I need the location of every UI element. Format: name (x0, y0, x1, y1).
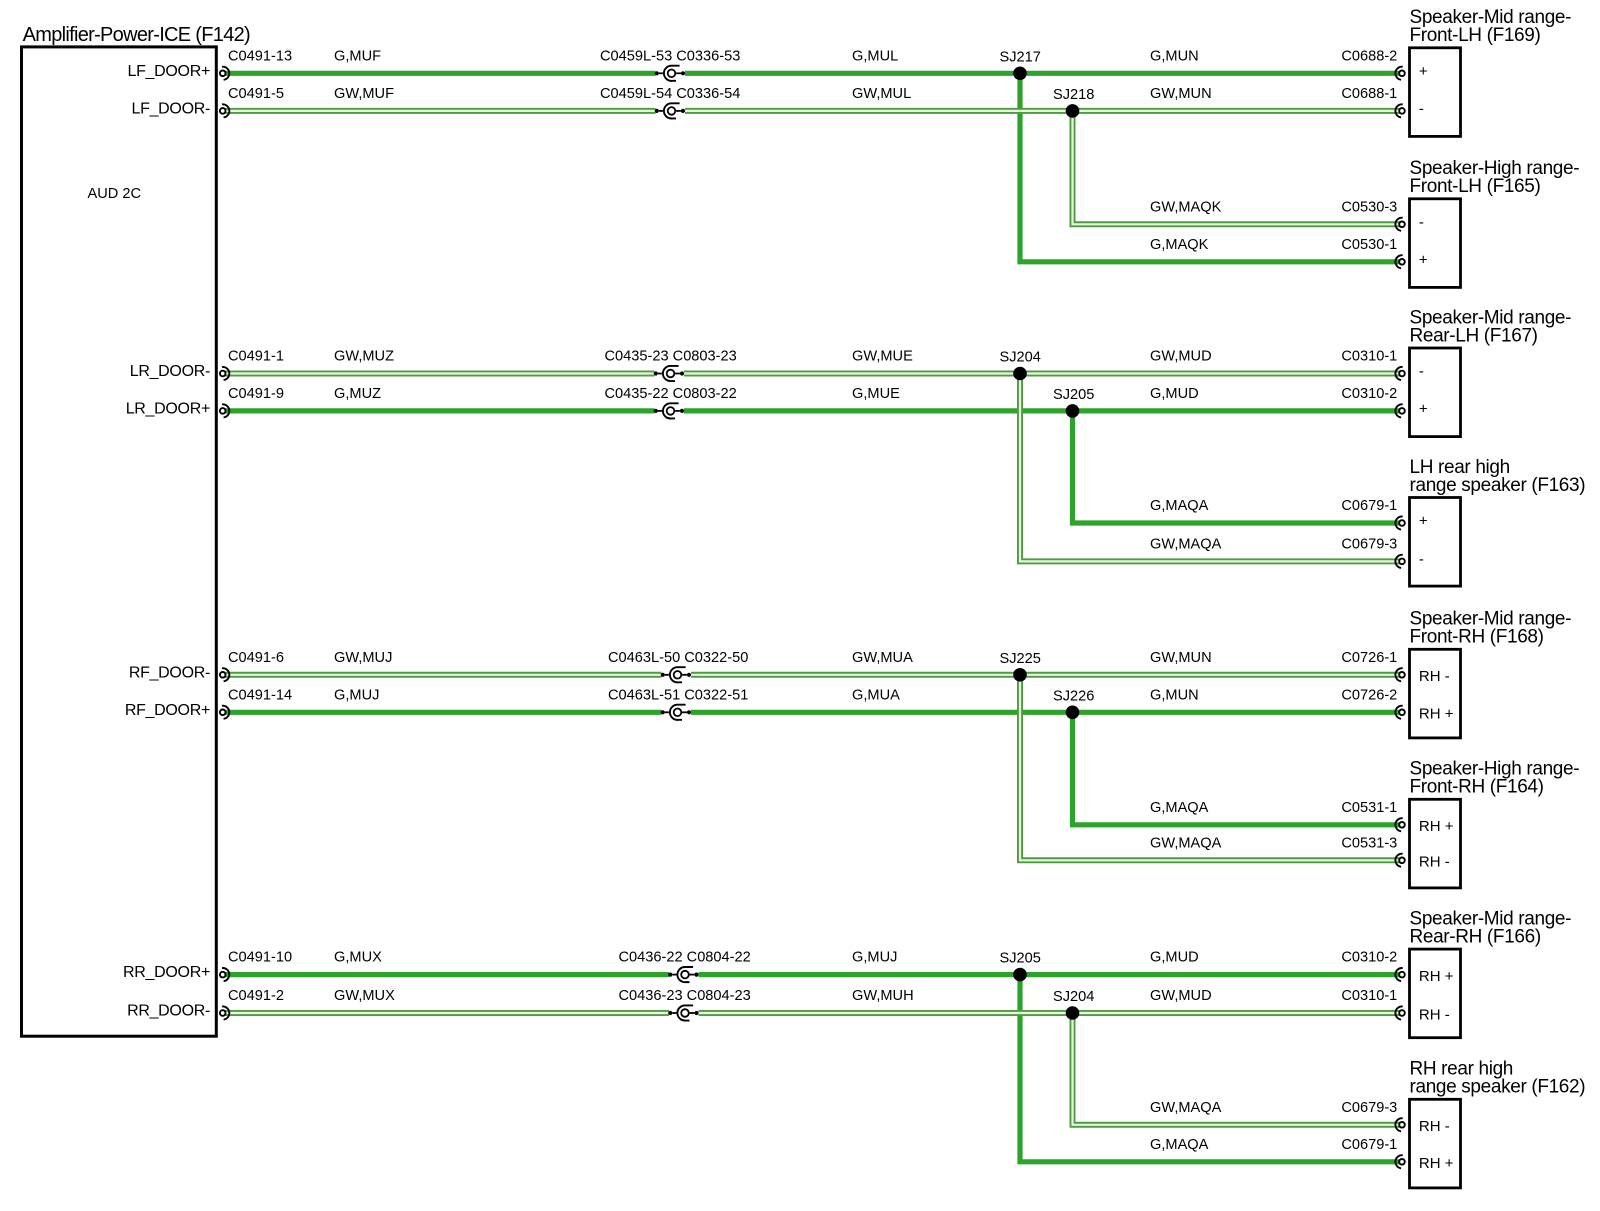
speaker pin C0310-2 (1395, 404, 1404, 417)
svg-text:GW,MUJ: GW,MUJ (334, 650, 392, 666)
svg-text:RH -: RH - (1419, 854, 1450, 871)
svg-text:LF_DOOR-: LF_DOOR- (132, 100, 211, 117)
svg-text:-: - (1419, 363, 1424, 380)
svg-text:C0530-1: C0530-1 (1341, 237, 1397, 253)
svg-text:RR_DOOR+: RR_DOOR+ (123, 964, 210, 981)
amplifier Amplifier-Power-ICE (F142) box (22, 47, 217, 1036)
svg-text:range speaker (F162): range speaker (F162) (1410, 1077, 1586, 1098)
svg-text:C0679-1: C0679-1 (1341, 498, 1397, 514)
svg-text:G,MAQA: G,MAQA (1150, 800, 1209, 816)
svg-text:GW,MUE: GW,MUE (852, 349, 913, 365)
svg-text:C0491-1: C0491-1 (228, 349, 284, 365)
svg-text:G,MUZ: G,MUZ (334, 386, 381, 402)
svg-text:C0679-3: C0679-3 (1341, 1100, 1397, 1116)
junction SJ217 (1013, 67, 1027, 81)
svg-text:GW,MUD: GW,MUD (1150, 988, 1212, 1004)
svg-text:SJ225: SJ225 (1000, 651, 1041, 667)
svg-text:C0688-2: C0688-2 (1341, 48, 1397, 64)
amplifier pin RF_DOOR+ (C0491-14) (220, 706, 229, 719)
wire G,MUA / G,MUN thick segment 2 (691, 710, 1402, 715)
svg-text:C0463L-51 C0322-51: C0463L-51 C0322-51 (608, 687, 748, 703)
svg-text:GW,MAQK: GW,MAQK (1150, 199, 1222, 215)
amplifier pin LF_DOOR+ (C0491-13) (220, 67, 229, 80)
inline connector C0436-22 C0804-22 (668, 967, 698, 982)
junction SJ205 (1066, 404, 1080, 418)
wire GW,MUL / GW,MUN thin segment 2 (685, 108, 1402, 114)
wire GW,MAQA branch from SJ225 (1020, 675, 1402, 861)
speaker pin C0531-3 (1395, 854, 1404, 867)
amplifier pin LR_DOOR+ (C0491-9) (220, 404, 229, 417)
wire G,MUJ / G,MUD thick segment 2 (699, 972, 1403, 977)
svg-text:C0491-10: C0491-10 (228, 950, 292, 966)
svg-text:G,MUN: G,MUN (1150, 48, 1199, 64)
svg-text:+: + (1419, 251, 1428, 268)
inline connector C0463L-51 C0322-51 (661, 705, 691, 720)
svg-text:G,MAQA: G,MAQA (1150, 1137, 1209, 1153)
svg-text:C0726-2: C0726-2 (1341, 687, 1397, 703)
inline connector C0436-23 C0804-23 (668, 1005, 698, 1020)
svg-text:-: - (1419, 100, 1424, 117)
svg-text:RH -: RH - (1419, 1006, 1450, 1023)
svg-text:LR_DOOR+: LR_DOOR+ (126, 400, 210, 417)
svg-text:C0679-3: C0679-3 (1341, 536, 1397, 552)
svg-text:SJ218: SJ218 (1053, 87, 1094, 103)
wire G,MUL / G,MUN thick segment 2 (685, 71, 1402, 76)
wire GW,MUZ (C0491-1) thin segment 1 (223, 371, 655, 377)
svg-text:C0531-3: C0531-3 (1341, 835, 1397, 851)
svg-text:G,MAQK: G,MAQK (1150, 237, 1209, 253)
svg-text:G,MUN: G,MUN (1150, 687, 1199, 703)
svg-text:C0310-1: C0310-1 (1341, 988, 1397, 1004)
svg-text:Front-RH (F164): Front-RH (F164) (1410, 777, 1544, 798)
svg-text:-: - (1419, 214, 1424, 231)
svg-text:Amplifier-Power-ICE (F142): Amplifier-Power-ICE (F142) (23, 24, 250, 46)
speaker pin C0530-1 (1395, 255, 1404, 268)
svg-text:GW,MUH: GW,MUH (852, 988, 914, 1004)
svg-text:C0679-1: C0679-1 (1341, 1137, 1397, 1153)
inline connector C0463L-50 C0322-50 (661, 667, 691, 682)
wire GW,MAQA branch from SJ204 (1020, 374, 1402, 562)
svg-text:RH -: RH - (1419, 1118, 1450, 1135)
junction SJ225 (1013, 668, 1027, 682)
wire GW,MUX (C0491-2) thin segment 1 (223, 1010, 669, 1016)
speaker pin C0679-1 (1395, 1155, 1404, 1168)
speaker F165 box (1410, 199, 1461, 288)
svg-text:RH +: RH + (1419, 968, 1454, 985)
svg-text:SJ205: SJ205 (1000, 951, 1041, 967)
wire G,MUE / G,MUD thick segment 2 (684, 408, 1402, 413)
svg-text:G,MUL: G,MUL (852, 48, 898, 64)
speaker pin C0310-1 (1395, 1006, 1404, 1019)
junction SJ218 (1066, 104, 1080, 118)
wire GW,MAQK branch from SJ218 (1073, 111, 1403, 224)
svg-text:GW,MUA: GW,MUA (852, 650, 913, 666)
wire GW,MUF (C0491-5) thin segment 1 (223, 108, 656, 114)
wire G,MUZ (C0491-9) thick segment 1 (223, 408, 655, 413)
svg-text:C0491-13: C0491-13 (228, 48, 292, 64)
svg-text:-: - (1419, 551, 1424, 568)
speaker F168 box (1410, 649, 1461, 738)
svg-text:G,MUX: G,MUX (334, 950, 382, 966)
junction SJ205 (1013, 968, 1027, 982)
svg-text:G,MUD: G,MUD (1150, 386, 1199, 402)
svg-text:RF_DOOR+: RF_DOOR+ (125, 702, 210, 719)
svg-text:RF_DOOR-: RF_DOOR- (129, 664, 210, 681)
svg-text:G,MUA: G,MUA (852, 687, 900, 703)
speaker pin C0310-1 (1395, 367, 1404, 380)
svg-text:RH +: RH + (1419, 1155, 1454, 1172)
wire G,MAQA branch from SJ226 (1073, 712, 1403, 825)
svg-text:SJ205: SJ205 (1053, 387, 1094, 403)
inline connector C0459L-54 C0336-54 (655, 103, 685, 118)
svg-text:range speaker (F163): range speaker (F163) (1410, 475, 1586, 496)
speaker pin C0726-1 (1395, 668, 1404, 681)
svg-text:C0491-6: C0491-6 (228, 650, 284, 666)
svg-text:C0491-5: C0491-5 (228, 86, 284, 102)
speaker pin C0531-1 (1395, 818, 1404, 831)
svg-text:G,MUE: G,MUE (852, 386, 900, 402)
wire GW,MUH / GW,MUD thin segment 2 (699, 1010, 1403, 1016)
svg-text:GW,MAQA: GW,MAQA (1150, 536, 1222, 552)
svg-text:LF_DOOR+: LF_DOOR+ (127, 63, 210, 80)
junction SJ226 (1066, 706, 1080, 720)
svg-text:C0491-2: C0491-2 (228, 988, 284, 1004)
speaker pin C0688-2 (1395, 67, 1404, 80)
amplifier pin LR_DOOR- (C0491-1) (220, 367, 229, 380)
svg-text:G,MUF: G,MUF (334, 48, 381, 64)
amplifier pin LF_DOOR- (C0491-5) (220, 104, 229, 117)
speaker F169 box (1410, 48, 1461, 137)
svg-text:Rear-LH (F167): Rear-LH (F167) (1410, 325, 1538, 346)
speaker pin C0679-3 (1395, 1118, 1404, 1131)
svg-text:GW,MUZ: GW,MUZ (334, 349, 394, 365)
svg-text:C0436-23 C0804-23: C0436-23 C0804-23 (619, 988, 751, 1004)
svg-text:RH +: RH + (1419, 706, 1454, 723)
svg-text:C0491-14: C0491-14 (228, 687, 292, 703)
amplifier pin RF_DOOR- (C0491-6) (220, 668, 229, 681)
svg-text:G,MUD: G,MUD (1150, 950, 1199, 966)
svg-text:Front-LH (F169): Front-LH (F169) (1410, 25, 1541, 46)
speaker F164 box (1410, 799, 1461, 888)
svg-text:+: + (1419, 63, 1428, 80)
inline connector C0459L-53 C0336-53 (655, 66, 685, 81)
inline connector C0435-22 C0803-22 (654, 403, 684, 418)
svg-text:Front-LH (F165): Front-LH (F165) (1410, 176, 1541, 197)
svg-text:GW,MAQA: GW,MAQA (1150, 835, 1222, 851)
svg-text:C0436-22 C0804-22: C0436-22 C0804-22 (619, 950, 751, 966)
wire G,MAQA branch from SJ205 (1073, 411, 1403, 523)
wire GW,MAQA branch from SJ204 (1073, 1013, 1403, 1125)
speaker pin C0310-2 (1395, 968, 1404, 981)
amplifier pin RR_DOOR- (C0491-2) (220, 1006, 229, 1019)
svg-text:C0435-23 C0803-23: C0435-23 C0803-23 (605, 349, 737, 365)
junction SJ204 (1013, 367, 1027, 381)
svg-text:G,MUJ: G,MUJ (852, 950, 897, 966)
svg-text:C0463L-50 C0322-50: C0463L-50 C0322-50 (608, 650, 748, 666)
wire GW,MUA / GW,MUN thin segment 2 (691, 672, 1402, 678)
svg-text:LR_DOOR-: LR_DOOR- (130, 363, 210, 380)
svg-text:GW,MUF: GW,MUF (334, 86, 394, 102)
svg-text:GW,MUN: GW,MUN (1150, 650, 1212, 666)
inline connector C0435-23 C0803-23 (654, 366, 684, 381)
svg-text:C0310-1: C0310-1 (1341, 349, 1397, 365)
svg-text:+: + (1419, 513, 1428, 530)
svg-text:Front-RH (F168): Front-RH (F168) (1410, 627, 1544, 648)
svg-text:RH -: RH - (1419, 668, 1450, 685)
wire GW,MUE / GW,MUD thin segment 2 (684, 371, 1402, 377)
speaker pin C0688-1 (1395, 104, 1404, 117)
svg-text:G,MAQA: G,MAQA (1150, 498, 1209, 514)
speaker F167 box (1410, 348, 1461, 437)
speaker pin C0530-3 (1395, 218, 1404, 231)
svg-text:C0491-9: C0491-9 (228, 386, 284, 402)
wire GW,MUJ (C0491-6) thin segment 1 (223, 672, 662, 678)
svg-text:C0459L-53 C0336-53: C0459L-53 C0336-53 (600, 48, 740, 64)
svg-text:SJ217: SJ217 (1000, 49, 1041, 65)
svg-text:C0435-22 C0803-22: C0435-22 C0803-22 (605, 386, 737, 402)
speaker pin C0679-3 (1395, 555, 1404, 568)
svg-text:AUD 2C: AUD 2C (88, 186, 142, 202)
svg-text:RR_DOOR-: RR_DOOR- (127, 1003, 210, 1020)
wire G,MUX (C0491-10) thick segment 1 (223, 972, 669, 977)
wire G,MAQA branch from SJ205 (1020, 975, 1402, 1162)
svg-text:GW,MUD: GW,MUD (1150, 349, 1212, 365)
amplifier pin RR_DOOR+ (C0491-10) (220, 968, 229, 981)
speaker F163 box (1410, 498, 1461, 587)
svg-text:C0688-1: C0688-1 (1341, 86, 1397, 102)
svg-text:+: + (1419, 400, 1428, 417)
svg-text:SJ204: SJ204 (1053, 989, 1094, 1005)
wire G,MAQK branch from SJ217 (1020, 73, 1402, 261)
svg-text:C0310-2: C0310-2 (1341, 950, 1397, 966)
speaker F166 box (1410, 949, 1461, 1038)
svg-text:RH +: RH + (1419, 818, 1454, 835)
speaker pin C0679-1 (1395, 516, 1404, 529)
speaker pin C0726-2 (1395, 706, 1404, 719)
svg-text:G,MUJ: G,MUJ (334, 687, 379, 703)
wire G,MUF (C0491-13) thick segment 1 (223, 71, 656, 76)
svg-text:SJ226: SJ226 (1053, 688, 1094, 704)
svg-text:C0726-1: C0726-1 (1341, 650, 1397, 666)
speaker F162 box (1410, 1099, 1461, 1188)
svg-text:Rear-RH (F166): Rear-RH (F166) (1410, 927, 1541, 948)
wire G,MUJ (C0491-14) thick segment 1 (223, 710, 662, 715)
svg-text:C0531-1: C0531-1 (1341, 800, 1397, 816)
svg-text:GW,MUX: GW,MUX (334, 988, 395, 1004)
svg-text:GW,MUL: GW,MUL (852, 86, 911, 102)
junction SJ204 (1066, 1006, 1080, 1020)
svg-text:C0459L-54 C0336-54: C0459L-54 C0336-54 (600, 86, 740, 102)
svg-text:C0310-2: C0310-2 (1341, 386, 1397, 402)
svg-text:GW,MUN: GW,MUN (1150, 86, 1212, 102)
svg-text:C0530-3: C0530-3 (1341, 199, 1397, 215)
svg-text:SJ204: SJ204 (1000, 350, 1041, 366)
svg-text:GW,MAQA: GW,MAQA (1150, 1100, 1222, 1116)
